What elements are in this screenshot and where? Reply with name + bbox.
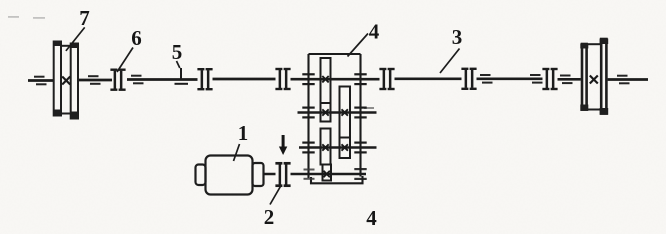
svg-text:7: 7 — [79, 6, 90, 30]
svg-text:5: 5 — [172, 40, 183, 64]
svg-text:4: 4 — [366, 206, 377, 230]
svg-text:6: 6 — [131, 26, 142, 50]
svg-text:3: 3 — [452, 25, 463, 49]
svg-text:4: 4 — [369, 20, 380, 44]
svg-text:2: 2 — [264, 205, 275, 229]
svg-text:1: 1 — [238, 121, 249, 145]
